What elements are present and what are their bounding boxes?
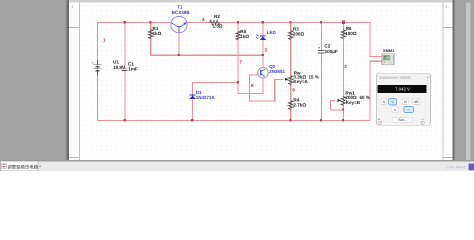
wire C1 branch bbox=[124, 23, 126, 121]
canvas background gray left bbox=[0, 0, 69, 160]
svg-text:15 %: 15 % bbox=[309, 75, 319, 80]
resistor R1 bbox=[149, 30, 153, 39]
svg-text:200Ω: 200Ω bbox=[293, 32, 305, 37]
svg-text:C2: C2 bbox=[324, 44, 330, 49]
svg-text:C1: C1 bbox=[128, 61, 134, 66]
resistor R6 bbox=[341, 30, 345, 39]
svg-text:8: 8 bbox=[251, 83, 254, 88]
resistor R5 bbox=[236, 31, 240, 40]
battery U1 bbox=[94, 65, 102, 71]
sheet white bbox=[69, 0, 454, 160]
wire xmm minus bbox=[370, 61, 382, 120]
left margin tick bbox=[69, 27, 79, 28]
buttons row1 bbox=[378, 98, 424, 124]
svg-text:XMM1: XMM1 bbox=[383, 48, 395, 53]
svg-text:1N4371A: 1N4371A bbox=[196, 95, 216, 100]
LED bbox=[256, 30, 277, 40]
svg-text:7: 7 bbox=[240, 60, 243, 65]
svg-text:⎓: ⎓ bbox=[407, 108, 410, 112]
junction T1 base bbox=[178, 54, 180, 56]
junction R3 top rail bbox=[289, 21, 291, 23]
zener D1 bbox=[189, 90, 215, 100]
junction R4 ground rail bbox=[289, 119, 291, 121]
svg-text:100Ω: 100Ω bbox=[345, 31, 357, 36]
transistor T1 bbox=[171, 5, 191, 33]
wire T1 base stem bbox=[178, 33, 180, 55]
svg-text:7.042 V: 7.042 V bbox=[395, 86, 410, 91]
svg-text:LED: LED bbox=[267, 30, 277, 35]
svg-text:+: + bbox=[92, 61, 94, 65]
svg-text:1kΩ: 1kΩ bbox=[153, 31, 162, 36]
svg-text:Multimeter-XMM1: Multimeter-XMM1 bbox=[380, 75, 412, 80]
resistor R3 bbox=[289, 31, 293, 40]
svg-text:Ω: Ω bbox=[404, 100, 407, 104]
svg-text:+: + bbox=[121, 64, 123, 68]
svg-text:2N3651: 2N3651 bbox=[269, 69, 285, 74]
wire base node horizontal bbox=[151, 54, 263, 56]
junction Rw1 wiper bbox=[342, 109, 344, 111]
resistor R2 bbox=[210, 20, 220, 24]
svg-text:调整型稳压电路 *: 调整型稳压电路 * bbox=[7, 165, 41, 170]
junction D1 ground rail bbox=[191, 119, 193, 121]
sheet edge dark line left bbox=[67, 0, 70, 160]
svg-text:×: × bbox=[427, 75, 430, 80]
svg-text:9: 9 bbox=[292, 88, 295, 93]
svg-text:Set...: Set... bbox=[398, 118, 406, 122]
svg-text:60 %: 60 % bbox=[360, 95, 370, 100]
svg-text:∿: ∿ bbox=[394, 108, 397, 112]
svg-text:CGK 40mA: CGK 40mA bbox=[447, 166, 467, 170]
bottom bar bbox=[0, 160, 474, 171]
wire Rw1 wiper loop bbox=[330, 100, 343, 109]
wire D1 top bbox=[193, 82, 239, 120]
wire R5 branch / net 7 bbox=[238, 23, 263, 94]
svg-text:1.5Ω: 1.5Ω bbox=[213, 24, 223, 29]
right margin border line bbox=[443, 3, 444, 161]
svg-text:Key=B: Key=B bbox=[346, 100, 361, 105]
wire top rail left of T1 bbox=[98, 23, 171, 121]
svg-text:2: 2 bbox=[344, 64, 347, 69]
Multimeter panel bbox=[376, 73, 430, 125]
wire C2 branch bbox=[320, 23, 322, 121]
junction node 3 bbox=[262, 54, 264, 56]
left margin border line bbox=[79, 3, 80, 161]
capacitor C1 bbox=[124, 68, 125, 71]
junction R6 top rail bbox=[342, 21, 345, 24]
right scrollbar strip bbox=[466, 3, 471, 161]
junction LED top rail bbox=[262, 21, 264, 23]
XMM1 icon bbox=[382, 48, 395, 65]
svg-text:100µF: 100µF bbox=[325, 49, 338, 54]
sheet edge dark line right bbox=[453, 0, 455, 160]
resistor R4 bbox=[289, 101, 293, 110]
svg-text:3: 3 bbox=[265, 48, 268, 53]
wire bottom rail bbox=[98, 120, 371, 122]
junction R5 top rail bbox=[237, 21, 239, 23]
tab bbox=[1, 161, 39, 171]
junction C2 ground rail bbox=[320, 119, 322, 121]
svg-text:R2: R2 bbox=[214, 14, 220, 19]
svg-text:BCX38B: BCX38B bbox=[172, 10, 191, 15]
potentiometer Rw1 bbox=[341, 96, 345, 105]
svg-text:Key=A: Key=A bbox=[293, 79, 308, 84]
svg-text:U1: U1 bbox=[113, 60, 119, 65]
wire top rail T1 to corner bbox=[187, 23, 382, 57]
canvas background gray right bbox=[455, 0, 474, 161]
svg-text:1mF: 1mF bbox=[128, 67, 138, 72]
wire R6 Rw1 column bbox=[342, 23, 344, 121]
junction Rw1 ground rail bbox=[342, 119, 344, 121]
svg-text:19.8V: 19.8V bbox=[113, 65, 126, 70]
top gray band bbox=[69, 0, 454, 3]
junction D1 node 7 bbox=[237, 81, 239, 83]
junction R1 top rail bbox=[149, 21, 151, 23]
set button bbox=[392, 117, 413, 122]
svg-text:1: 1 bbox=[103, 38, 106, 43]
svg-text:dB: dB bbox=[414, 100, 419, 104]
svg-text:T1: T1 bbox=[177, 5, 183, 10]
svg-text:1kΩ: 1kΩ bbox=[240, 34, 249, 39]
wire LED / Q2 collector column bbox=[262, 23, 264, 68]
capacitor C2 bbox=[321, 51, 322, 54]
potentiometer Rw bbox=[289, 76, 293, 85]
wire R1 branch bbox=[150, 23, 152, 56]
transistor Q2 bbox=[258, 64, 286, 78]
svg-text:+: + bbox=[318, 46, 320, 50]
svg-text:2.7kΩ: 2.7kΩ bbox=[293, 102, 306, 107]
row2 bbox=[392, 107, 399, 112]
junction C2 top rail bbox=[320, 21, 322, 23]
junction C1 top rail bbox=[124, 21, 126, 23]
wire R3 divider column bbox=[290, 23, 292, 121]
junction C1 ground rail bbox=[124, 119, 126, 121]
svg-text:4: 4 bbox=[202, 17, 205, 22]
wire Q2 base net 8 bbox=[249, 75, 283, 101]
